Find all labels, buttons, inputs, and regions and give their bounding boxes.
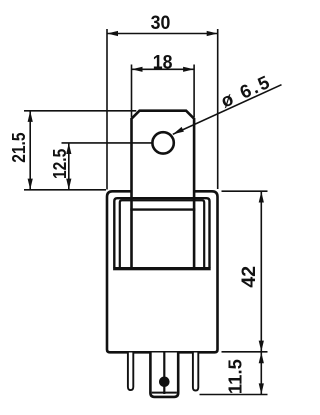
- right pin: [193, 353, 198, 391]
- leader line for hole diameter: [173, 85, 282, 135]
- svg-text:12.5: 12.5: [50, 148, 71, 179]
- middle pin inner bottom line: [152, 392, 177, 394]
- relay body (cover) outline: [107, 191, 218, 352]
- dimension 21.5: extension lines: [24, 110, 136, 112]
- dimension 42: line and arrows: [260, 192, 262, 352]
- svg-text:42: 42: [238, 266, 260, 288]
- dimension 12.5: line and arrows: [68, 143, 70, 190]
- middle wide pin (U shape): [150, 353, 178, 397]
- inner frame A: [114, 198, 209, 267]
- dimension 21.5: line and arrows: [29, 111, 31, 190]
- middle pin centre line: [163, 353, 165, 395]
- dimension 12.5: extension line: [62, 142, 153, 144]
- mounting tab (blade): [132, 111, 195, 268]
- bottom band of inner structure: [113, 267, 211, 270]
- svg-text:18: 18: [153, 51, 173, 73]
- middle pin dot: [159, 377, 170, 388]
- left pin: [128, 353, 133, 391]
- inner frame B: [120, 200, 204, 267]
- dimension 30: extension lines: [106, 29, 108, 190]
- svg-text:30: 30: [151, 11, 171, 33]
- dimension 11.5: line and arrows: [260, 352, 262, 394]
- dimension 30: line and arrows: [107, 33, 218, 35]
- dimension 11.5: extension line: [200, 394, 268, 396]
- dimension 42: extension lines: [222, 190, 268, 192]
- inner frame C top: [130, 208, 195, 210]
- dimension 18: extension lines: [131, 65, 133, 118]
- svg-text:21.5: 21.5: [9, 132, 30, 163]
- dimension 18: line and arrows: [132, 68, 195, 70]
- svg-text:11.5: 11.5: [224, 359, 245, 394]
- hole in tab: [152, 132, 173, 153]
